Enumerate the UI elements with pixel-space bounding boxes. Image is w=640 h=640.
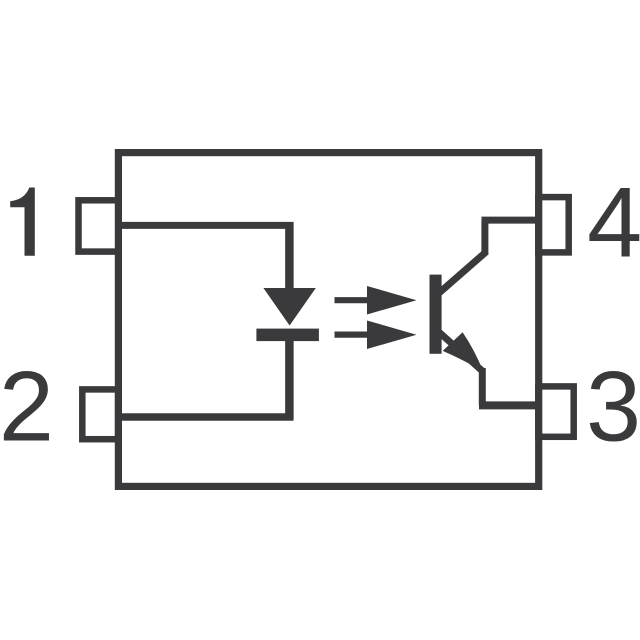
wire emitter to pin 3 xyxy=(479,401,538,409)
pin 4 terminal box xyxy=(538,197,568,252)
wire cathode (LED bottom to pin 2) xyxy=(118,413,294,421)
pin 2 terminal box xyxy=(82,389,118,439)
svg-text:3: 3 xyxy=(586,351,640,462)
LED cathode bar xyxy=(256,329,319,342)
transistor emitter arrowhead xyxy=(443,332,484,371)
LED D1 triangle xyxy=(263,288,315,326)
light arrow 1 tail xyxy=(335,297,370,303)
wire emitter stub xyxy=(479,368,486,405)
light arrow 1 head xyxy=(367,286,417,315)
transistor emitter diagonal xyxy=(439,332,484,372)
package outline xyxy=(118,153,538,487)
wire collector stub xyxy=(481,220,488,254)
wire anode (pin 1 to LED top) xyxy=(118,222,294,229)
wire collector to pin 4 xyxy=(482,217,539,224)
svg-text:4: 4 xyxy=(587,166,640,277)
light arrow 2 head xyxy=(367,321,417,350)
light arrow 2 tail xyxy=(335,332,370,338)
wire LED vertical bottom xyxy=(285,340,294,419)
wire LED vertical top xyxy=(285,222,294,290)
pin 3 terminal box xyxy=(538,386,573,436)
pin number 1 xyxy=(10,188,35,256)
transistor collector diagonal xyxy=(439,252,487,294)
svg-text:2: 2 xyxy=(0,350,54,461)
transistor Q1 base bar xyxy=(430,275,442,354)
pin 1 terminal box xyxy=(79,200,119,251)
